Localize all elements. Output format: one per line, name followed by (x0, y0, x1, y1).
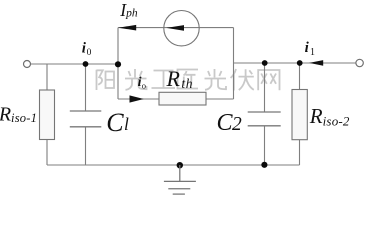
wire: main right horizontal (234, 62, 357, 64)
arrow io (Rsh branch, points right) (130, 95, 144, 102)
circuit wires (31, 28, 357, 165)
wire: C1 top stub (85, 64, 87, 111)
wire: C2 top stub (264, 63, 266, 112)
wire: Riso-1 top stub (46, 64, 48, 90)
current source arrow (inside circle) (166, 25, 184, 31)
wire: loop right vertical (233, 28, 235, 99)
arrow Iph (on top wire) (118, 25, 136, 31)
resistor Rsh body (159, 92, 206, 105)
node dot loop junction (115, 61, 121, 67)
arrow i1 (on right wire) (309, 60, 323, 66)
capacitor C2 plates (248, 112, 281, 126)
node dot C2 junction (262, 60, 268, 66)
伏 (231, 69, 254, 91)
resistor Riso-1 (40, 90, 55, 140)
wire: C2 bottom stub (264, 126, 266, 165)
node dot ground junction (177, 162, 183, 168)
工 (152, 71, 176, 89)
光 (125, 69, 147, 90)
wire: Riso-2 top stub (299, 63, 301, 90)
node dot Riso-2 junction (297, 60, 303, 66)
网 (258, 70, 279, 90)
wire: Riso-2 bottom stub (299, 140, 301, 165)
svg-text:io: io (138, 75, 146, 90)
current source U1 circle (164, 11, 199, 46)
wire: Riso-1 bottom stub (46, 140, 48, 166)
wire: Rsh left lead (118, 98, 159, 100)
terminal right (356, 59, 363, 66)
svg-text:i1: i1 (305, 40, 315, 58)
capacitor C1 plates (70, 111, 102, 127)
svg-text:Cl: Cl (106, 108, 129, 137)
wire: loop left vertical (117, 28, 119, 99)
node dot C2 bottom junction (261, 162, 267, 168)
wire: main left horizontal (31, 63, 119, 65)
wire: loop top horizontal (118, 27, 234, 29)
wire: Rsh right lead (206, 98, 234, 100)
阳 (97, 70, 103, 90)
匠 (178, 70, 199, 89)
svg-text:Riso-2: Riso-2 (309, 104, 350, 129)
光 (205, 69, 227, 90)
svg-text:Riso-1: Riso-1 (0, 104, 37, 126)
wire: bottom horizontal (47, 164, 300, 166)
wire: C1 bottom stub (85, 127, 87, 165)
ground (164, 165, 196, 194)
resistor Riso-2 (292, 90, 307, 140)
svg-text:C2: C2 (217, 110, 243, 136)
watermark 阳光工匠光伏网 (97, 69, 280, 91)
svg-text:Iph: Iph (119, 0, 138, 20)
node dot C1 junction (83, 61, 89, 67)
terminal left (24, 61, 31, 68)
svg-text:i0: i0 (82, 41, 92, 58)
